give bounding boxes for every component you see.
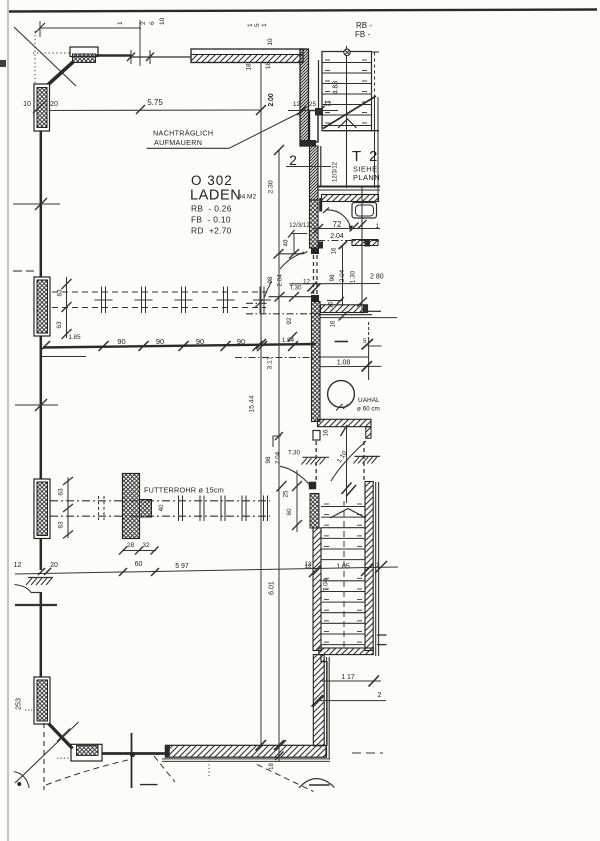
door arc bottom [299,779,335,788]
pillar 4 [34,677,50,724]
svg-text:32: 32 [142,542,150,549]
vertical dim lines right [339,187,368,314]
door opening dashes [315,441,317,481]
svg-text:1.08: 1.08 [337,360,351,367]
svg-text:90: 90 [196,337,204,346]
svg-text:12/3/12: 12/3/12 [333,161,339,182]
svg-text:NACHTRÄGLICH: NACHTRÄGLICH [153,129,213,138]
tick verticals [130,50,132,64]
dotted mark [25,709,34,711]
svg-text:2.04: 2.04 [277,274,284,287]
long vertical dimension line B [278,150,280,762]
dash-dot axes [246,302,268,304]
svg-text:18: 18 [265,62,272,70]
svg-text:1: 1 [117,21,124,25]
labels 10 / 20 at pillar1 [23,101,58,108]
svg-text:FUTTERROHR ø 15cm: FUTTERROHR ø 15cm [144,486,224,495]
svg-text:63: 63 [58,488,65,496]
dimension 5.75 line [42,109,261,112]
svg-text:12/3/12: 12/3/12 [289,222,310,229]
double ticks [308,282,321,294]
svg-text:25: 25 [283,490,290,498]
tick [35,23,45,33]
svg-text:90: 90 [156,337,164,346]
dotted vertical under wall [208,757,210,776]
svg-text:2.00: 2.00 [268,93,275,106]
svg-text:12: 12 [14,562,22,569]
svg-text:RB - 0.26: RB - 0.26 [191,204,232,214]
dimension line top-left [40,27,141,29]
svg-text:18: 18 [246,63,253,71]
svg-text:PLANN: PLANN [353,173,380,182]
svg-text:2.04: 2.04 [275,451,282,464]
svg-text:92: 92 [286,317,293,325]
wall tick rows [13,100,60,605]
arrow ticks into bottom wall [256,740,267,751]
svg-text:40: 40 [283,239,290,246]
door swing arc lower [264,282,271,298]
double tick on door line [342,483,352,495]
east wall lower hatched [313,655,324,746]
small dim 40 [288,230,308,254]
east outer face lines [375,482,377,656]
svg-text:AUFMAUERN: AUFMAUERN [154,138,202,147]
svg-text:2 80: 2 80 [370,274,384,281]
corridor door arc lower [280,466,312,487]
svg-text:60: 60 [135,561,143,568]
stairwell west wall vertical band [300,49,309,146]
svg-text:63: 63 [56,321,63,329]
shaft top hatched band [321,305,368,313]
main interior dimension line [43,344,316,348]
diagonal wall segment [41,62,73,91]
svg-text:1: 1 [376,223,380,230]
extension line [39,21,41,37]
svg-text:15.44: 15.44 [249,395,256,412]
stub dashes right of corner [352,752,383,754]
axis tick pairs [179,496,268,522]
svg-text:4.83: 4.83 [333,81,340,95]
svg-text:5 97: 5 97 [175,563,189,570]
shaft bottom hatched band [318,419,372,426]
extension line [139,20,141,66]
door line diagonal [331,441,366,481]
dim 16 above shaft band [327,300,343,302]
diag ticks [127,53,135,62]
bottom hatched block [71,744,102,761]
63/63 dim left [66,277,68,338]
thin window wall [131,56,191,58]
svg-text:16: 16 [324,429,330,436]
dim labels rotated top [117,17,268,27]
corridor door dim line [274,249,308,259]
dotted mark left of block [57,757,73,759]
svg-text:LADEN: LADEN [190,188,241,204]
svg-text:10: 10 [267,38,274,46]
bottom window wall thick line [98,752,167,755]
svg-text:63: 63 [57,289,64,297]
wall inner lines [321,314,373,316]
thin diagonal dim line [15,722,79,783]
svg-text:2: 2 [378,692,382,699]
svg-text:2: 2 [289,152,297,168]
dashed axis marker box [98,496,100,520]
dashed vertical at left door [43,723,45,790]
corridor hatched band [322,195,379,202]
svg-text:12: 12 [303,279,311,286]
door opening dashes [313,255,315,294]
right outer wall lines [374,53,376,96]
bracket near 98 [273,436,281,447]
wall end cap lower [311,295,319,302]
ticks on main line [40,341,298,351]
east outer lines lower [326,657,328,758]
dim line lower [320,700,386,702]
door leaf white (nachtraeglich aufmauern) [310,111,319,143]
axis dash-dot left of shaft [235,357,313,359]
svg-text:12: 12 [293,101,301,108]
svg-text:18: 18 [269,763,275,770]
top wall hatched band [191,49,323,146]
svg-text:ø 60 cm: ø 60 cm [357,406,380,413]
break V mark [338,119,357,128]
door swing arc left [15,585,32,593]
ground hatch left [302,457,330,464]
svg-text:16: 16 [332,247,338,254]
svg-text:10: 10 [159,17,166,25]
page left scan edge [7,0,9,841]
top border line [9,10,597,12]
wall cap + crosshatch pier [309,482,316,490]
svg-text:2.04: 2.04 [330,233,344,240]
thick wall stub [95,54,131,57]
svg-text:253: 253 [16,698,23,710]
svg-text:1: 1 [247,23,254,27]
shaft dim vertical [368,322,370,339]
dim line 12/25/12 [288,106,338,115]
band end cap [363,305,368,313]
dash-dot axis [318,240,379,242]
svg-text:7.04: 7.04 [323,578,330,591]
svg-text:12: 12 [324,101,332,108]
ticks on vertical dims [253,105,285,750]
wall end cap [311,248,319,254]
stair bottom band [319,648,374,655]
svg-text:12: 12 [304,561,312,568]
svg-text:FB -: FB - [355,30,370,39]
stair direction diagonal [323,96,376,129]
svg-text:90: 90 [117,337,125,346]
svg-text:5: 5 [254,23,261,27]
stair bottom edge [322,130,379,132]
svg-text:94 M2: 94 M2 [238,194,256,201]
ground hatch symbol left door [26,578,53,586]
svg-text:UAHAL: UAHAL [358,397,380,404]
svg-text:72: 72 [333,220,342,229]
svg-text:T 2: T 2 [352,148,379,165]
svg-text:1.85: 1.85 [68,334,81,341]
dash mark [335,341,349,343]
upper staircase [322,46,379,201]
left exterior wall [40,130,43,678]
svg-text:T.30: T.30 [290,285,302,292]
wall inner face lines [318,60,320,109]
dashed door swings [46,760,128,785]
dotted axis vertical [34,31,36,92]
svg-text:40: 40 [158,504,165,512]
svg-text:98: 98 [267,276,274,284]
dotted axis horizontal [33,52,70,54]
svg-text:2.30: 2.30 [268,180,275,193]
corridor top wall double lines [317,186,380,188]
dim 1.08 [321,356,370,358]
futterrohr block [140,500,152,518]
svg-text:6.01: 6.01 [269,581,276,595]
lower hatched band WC [352,240,378,246]
svg-text:63: 63 [58,521,65,529]
lower stair west wall [313,528,321,651]
page edge mark [0,60,6,67]
axis circle [344,49,350,55]
ground hatch right [354,456,381,463]
svg-text:O 302: O 302 [191,173,233,188]
pillar 2 [34,277,50,336]
diagonal wall bottom-left [49,724,73,749]
dim lines horizontal [269,284,381,302]
rotated small labels near top wall [246,38,276,106]
lower stair treads [321,507,365,645]
WC fixture [352,203,377,219]
long vertical dimension line A [260,63,262,745]
long dim line 5.97 [15,567,398,574]
wall junction blob [315,108,323,116]
svg-text:6: 6 [149,21,156,25]
small arc with dot bottom-left [14,772,29,789]
dim line [314,223,381,234]
WC door arc [326,210,351,231]
svg-text:28: 28 [127,542,135,549]
door swing arc upper [280,252,304,269]
treads [322,63,372,126]
svg-text:FB - 0.10: FB - 0.10 [191,215,231,225]
svg-text:1.30: 1.30 [350,270,357,283]
futterrohr pillar [123,474,140,539]
bottom outer face lines [162,758,330,760]
pillar 3 [34,479,50,539]
labels 12 / 20 at door [14,562,58,569]
east wall step [321,655,327,746]
railing dashes [377,634,387,636]
pillar 1 [34,84,50,131]
svg-text:98: 98 [329,274,336,282]
lower stair east wall [365,482,373,651]
tread tick dashes [325,60,367,123]
svg-text:10: 10 [23,101,31,108]
svg-text:1: 1 [261,23,268,27]
svg-text:RD +2.70: RD +2.70 [191,226,232,236]
break V mark lower [330,509,366,519]
shaft west wall crosshatch [312,302,321,422]
svg-text:90: 90 [237,337,245,346]
svg-text:20: 20 [50,101,58,108]
shop window grid dashed rows [52,291,266,293]
futterrohr axis dash-dot rows [50,500,270,502]
svg-text:1.05: 1.05 [336,564,350,571]
svg-text:2: 2 [140,21,147,25]
tread end ticks [324,504,362,642]
svg-text:3.17: 3.17 [267,356,274,369]
svg-text:98: 98 [265,456,272,464]
bottom wall hatched band [166,745,327,757]
entrance axis cross [131,733,133,788]
svg-text:5.75: 5.75 [147,98,163,107]
grid tick groups [102,287,265,314]
short mark [140,784,158,786]
svg-text:16: 16 [331,320,337,327]
svg-text:20: 20 [50,562,58,569]
svg-text:RB -: RB - [356,21,372,30]
stair axis line [346,46,348,188]
band bottom cap [300,140,316,146]
svg-text:1 17: 1 17 [341,674,355,681]
labels 12 25 12 [293,101,332,109]
svg-text:25: 25 [309,101,317,108]
stair axis dashed [343,501,345,648]
long diagonal line [14,27,76,86]
stub line right [368,310,382,312]
svg-text:T.30: T.30 [288,450,300,457]
dim 1.17 [320,680,381,682]
90 labels [117,337,245,346]
secondary line below [42,356,86,358]
pillar top (hatched block) [70,47,98,63]
shaft circle [328,381,355,408]
corridor wall below stair [310,146,321,302]
svg-text:2.04: 2.04 [339,269,346,282]
svg-text:60: 60 [286,508,293,516]
63/63 dim at pillar3 [67,478,69,539]
